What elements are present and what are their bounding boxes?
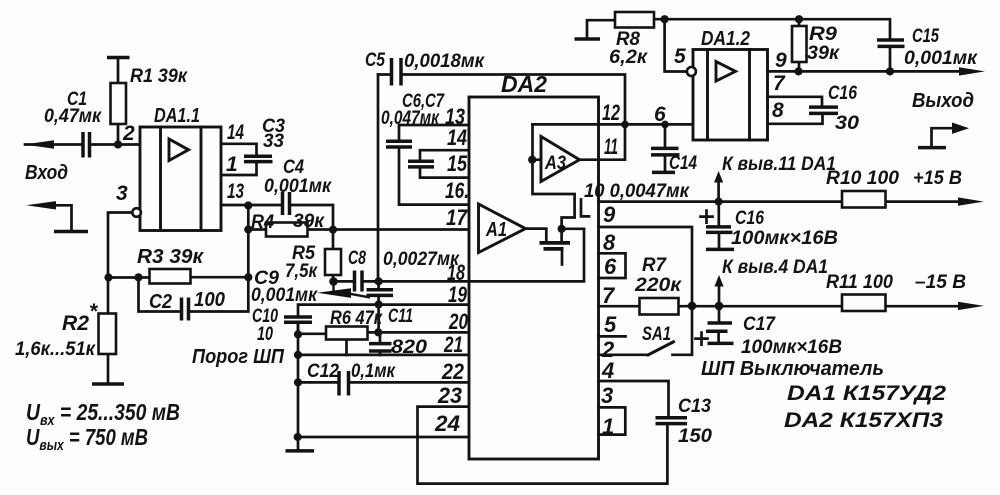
svg-text:DA1.2: DA1.2 [701, 28, 750, 50]
svg-text:DA2 К157ХП3: DA2 К157ХП3 [784, 409, 943, 432]
svg-text:30: 30 [835, 113, 859, 134]
svg-text:7: 7 [773, 72, 786, 95]
svg-text:5: 5 [674, 45, 686, 68]
svg-text:14: 14 [227, 121, 244, 144]
svg-text:0,001мк: 0,001мк [264, 176, 332, 197]
svg-text:DA2: DA2 [501, 71, 547, 97]
svg-text:100мк×16В: 100мк×16В [741, 337, 842, 358]
svg-text:6: 6 [604, 254, 617, 279]
svg-text:3: 3 [116, 182, 128, 205]
svg-text:19: 19 [448, 282, 468, 307]
svg-text:R4: R4 [251, 212, 274, 233]
svg-text:14: 14 [447, 125, 467, 150]
svg-text:Вход: Вход [25, 162, 68, 184]
svg-text:A1: A1 [485, 219, 507, 241]
svg-text:10 0,0047мк: 10 0,0047мк [584, 181, 690, 202]
svg-text:1,6к...51к: 1,6к...51к [15, 339, 96, 360]
svg-text:–15 В: –15 В [915, 272, 966, 293]
svg-text:21: 21 [443, 332, 463, 357]
svg-text:R9: R9 [809, 24, 837, 45]
svg-text:К выв.11 DA1: К выв.11 DA1 [722, 154, 836, 175]
svg-text:150: 150 [678, 426, 712, 447]
svg-text:Порог ШП: Порог ШП [192, 346, 285, 368]
svg-text:A3: A3 [544, 153, 566, 174]
svg-text:820: 820 [391, 337, 427, 358]
svg-text:R1 39к: R1 39к [130, 66, 188, 87]
svg-text:5: 5 [604, 312, 617, 337]
svg-text:17: 17 [446, 205, 469, 230]
svg-text:9: 9 [603, 202, 616, 227]
svg-text:15: 15 [447, 151, 468, 176]
svg-text:0,0018мк: 0,0018мк [404, 51, 485, 72]
svg-text:R2: R2 [62, 312, 89, 335]
svg-text:13: 13 [227, 180, 244, 203]
svg-text:R10 100: R10 100 [826, 168, 899, 189]
svg-text:7: 7 [602, 283, 616, 308]
svg-text:0,1мк: 0,1мк [351, 361, 396, 382]
svg-text:9: 9 [775, 49, 787, 72]
svg-text:22: 22 [441, 359, 465, 384]
svg-text:24: 24 [434, 411, 460, 436]
svg-text:C8: C8 [348, 248, 366, 269]
svg-text:SA1: SA1 [642, 324, 671, 345]
svg-text:11: 11 [604, 134, 618, 159]
svg-text:33: 33 [263, 131, 284, 152]
svg-text:6,2к: 6,2к [609, 47, 648, 68]
svg-text:R11 100: R11 100 [826, 272, 893, 293]
svg-text:R6 47к: R6 47к [330, 308, 383, 329]
svg-text:6: 6 [654, 103, 666, 126]
svg-text:2: 2 [122, 122, 135, 145]
svg-text:100мк×16В: 100мк×16В [731, 228, 838, 249]
svg-text:DA1.1: DA1.1 [154, 105, 200, 127]
svg-text:39к: 39к [293, 211, 325, 232]
svg-text:100: 100 [194, 289, 225, 311]
svg-text:C2: C2 [149, 291, 172, 313]
svg-text:C11: C11 [388, 306, 413, 327]
svg-text:12: 12 [602, 100, 621, 125]
svg-text:4: 4 [601, 358, 614, 383]
svg-text:К выв.4 DA1: К выв.4 DA1 [722, 257, 828, 278]
svg-text:C13: C13 [678, 396, 711, 417]
svg-text:C4: C4 [283, 157, 304, 178]
svg-text:0,047мк: 0,047мк [381, 108, 440, 129]
svg-text:10: 10 [257, 324, 273, 345]
svg-text:16.: 16. [445, 178, 469, 203]
svg-text:*: * [89, 300, 98, 323]
svg-text:R7: R7 [642, 255, 667, 276]
svg-text:20: 20 [448, 309, 468, 334]
svg-text:8: 8 [603, 230, 616, 255]
svg-text:ШП Выключатель: ШП Выключатель [701, 358, 884, 380]
svg-text:220к: 220к [634, 275, 683, 296]
svg-text:0,001мк: 0,001мк [251, 285, 318, 306]
svg-text:1: 1 [602, 414, 614, 439]
svg-text:C16: C16 [828, 83, 857, 104]
svg-text:C14: C14 [669, 153, 697, 174]
svg-text:C17: C17 [743, 314, 776, 335]
svg-text:3: 3 [601, 383, 613, 408]
svg-text:39к: 39к [807, 43, 840, 64]
svg-text:0,001мк: 0,001мк [904, 48, 978, 69]
svg-text:Выход: Выход [912, 90, 974, 112]
svg-text:+15 В: +15 В [913, 168, 962, 189]
svg-text:C16: C16 [735, 208, 764, 229]
svg-text:8: 8 [772, 99, 784, 122]
svg-text:23: 23 [437, 383, 462, 408]
svg-text:C12: C12 [307, 361, 339, 382]
svg-text:7,5к: 7,5к [285, 261, 318, 282]
svg-text:0,47мк: 0,47мк [44, 106, 102, 127]
svg-text:C15: C15 [912, 26, 939, 47]
svg-text:R3 39к: R3 39к [137, 246, 204, 268]
svg-text:DA1 К157УД2: DA1 К157УД2 [787, 382, 946, 405]
svg-text:1: 1 [226, 153, 238, 176]
svg-text:C5: C5 [365, 50, 385, 71]
